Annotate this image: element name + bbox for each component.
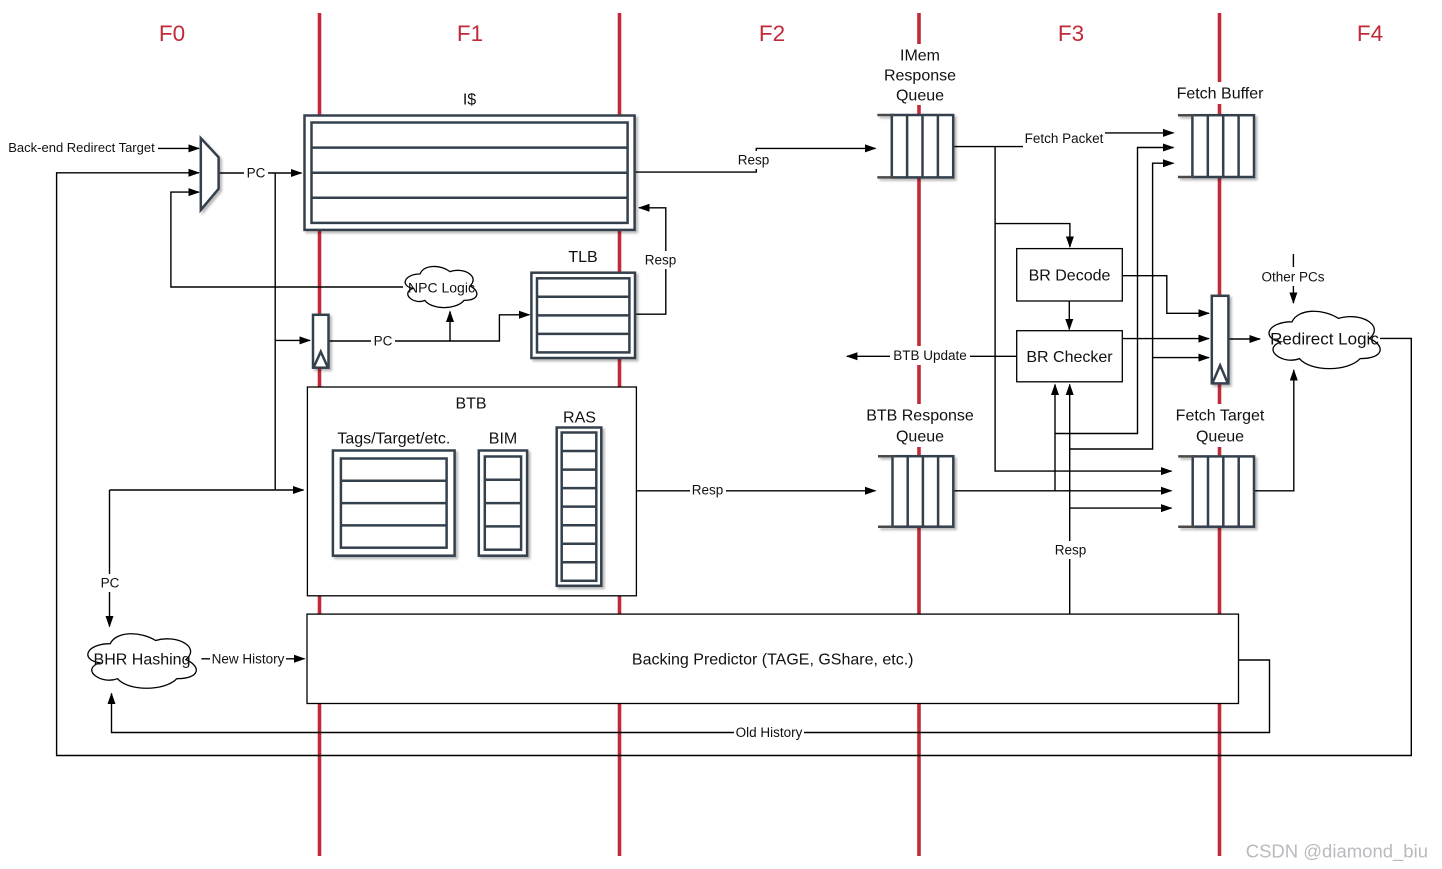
- svg-text:Resp: Resp: [1055, 543, 1087, 558]
- svg-text:BTB Response: BTB Response: [866, 408, 974, 425]
- svg-text:F1: F1: [457, 21, 483, 46]
- svg-text:TLB: TLB: [568, 249, 597, 266]
- svg-text:F4: F4: [1357, 21, 1383, 46]
- svg-text:PC: PC: [374, 334, 393, 349]
- svg-text:Response: Response: [884, 68, 956, 85]
- svg-text:Queue: Queue: [1196, 429, 1244, 446]
- svg-text:BR Checker: BR Checker: [1026, 349, 1113, 366]
- svg-text:F3: F3: [1058, 21, 1084, 46]
- svg-text:Old History: Old History: [736, 725, 803, 740]
- svg-text:Queue: Queue: [896, 429, 944, 446]
- svg-text:F2: F2: [759, 21, 785, 46]
- svg-text:Redirect Logic: Redirect Logic: [1270, 329, 1379, 348]
- svg-text:F0: F0: [159, 21, 185, 46]
- svg-text:Tags/Target/etc.: Tags/Target/etc.: [337, 431, 450, 448]
- svg-text:CSDN @diamond_biu: CSDN @diamond_biu: [1246, 841, 1428, 863]
- svg-text:Resp: Resp: [645, 253, 677, 268]
- svg-text:BIM: BIM: [489, 431, 517, 448]
- svg-text:Back-end Redirect Target: Back-end Redirect Target: [8, 140, 155, 155]
- svg-text:BR Decode: BR Decode: [1029, 267, 1111, 284]
- svg-text:IMem: IMem: [900, 48, 940, 65]
- svg-text:BHR Hashing: BHR Hashing: [94, 652, 191, 669]
- svg-text:PC: PC: [101, 576, 120, 591]
- svg-text:RAS: RAS: [563, 410, 596, 427]
- svg-text:Fetch Packet: Fetch Packet: [1025, 131, 1104, 146]
- svg-text:BTB: BTB: [455, 396, 486, 413]
- svg-text:New History: New History: [212, 652, 285, 667]
- svg-text:Backing Predictor (TAGE, GShar: Backing Predictor (TAGE, GShare, etc.): [632, 651, 914, 668]
- svg-text:Queue: Queue: [896, 88, 944, 105]
- svg-text:I$: I$: [463, 92, 476, 109]
- svg-text:Resp: Resp: [692, 483, 724, 498]
- svg-text:Other PCs: Other PCs: [1261, 270, 1324, 285]
- svg-text:NPC Logic: NPC Logic: [408, 279, 475, 295]
- svg-text:Fetch Target: Fetch Target: [1176, 408, 1265, 425]
- svg-text:Resp: Resp: [738, 153, 770, 168]
- svg-text:PC: PC: [247, 166, 266, 181]
- svg-text:BTB Update: BTB Update: [893, 348, 967, 363]
- svg-text:Fetch Buffer: Fetch Buffer: [1177, 86, 1265, 103]
